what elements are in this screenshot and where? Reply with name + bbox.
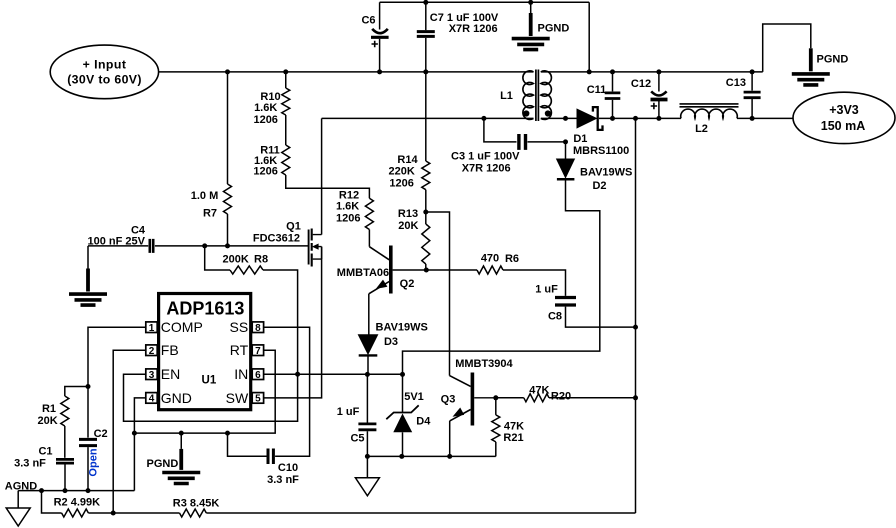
svg-text:1206: 1206 <box>253 114 277 126</box>
node C12 top <box>656 69 661 74</box>
svg-text:C13: C13 <box>726 77 746 89</box>
svg-text:R14: R14 <box>397 154 418 166</box>
ground PGND3 <box>179 449 183 470</box>
node GND rail start <box>132 431 137 436</box>
capacitor C7 <box>417 32 435 37</box>
wire C8 bottom <box>566 307 636 328</box>
wire C12 leads <box>658 72 660 119</box>
wire C4 ground lead <box>87 246 89 269</box>
svg-text:FB: FB <box>161 342 179 358</box>
svg-text:SW: SW <box>226 390 249 406</box>
svg-text:47K: 47K <box>529 385 549 397</box>
capacitor C11 <box>605 93 621 99</box>
capacitor C5 <box>358 424 376 430</box>
node C11 bottom <box>610 116 615 121</box>
wire PGND1 lead <box>530 2 532 13</box>
svg-text:GND: GND <box>161 390 192 406</box>
pin 3 EN <box>146 369 157 380</box>
svg-text:R1: R1 <box>42 403 56 415</box>
ground PGND2 <box>809 48 813 71</box>
resistor R3 <box>180 509 207 517</box>
capacitor C4 <box>150 239 153 253</box>
node +3V3 output terminal <box>793 92 895 143</box>
wire gate line 2 <box>155 245 308 247</box>
resistor R20 <box>524 394 549 402</box>
wire R8 right to IN <box>124 270 298 421</box>
resistor R13 <box>422 224 430 264</box>
svg-text:R3 8.45K: R3 8.45K <box>173 498 220 510</box>
diode D2 BAV19WS <box>557 159 575 178</box>
svg-text:BAV19WS: BAV19WS <box>580 167 632 179</box>
wire R1 top <box>65 387 88 397</box>
wire Q2 emitter to D3 <box>368 294 370 335</box>
node C5 bottom <box>365 454 370 459</box>
svg-text:AGND: AGND <box>5 480 37 492</box>
wire C5 bottom lead <box>366 431 368 456</box>
svg-text:C6: C6 <box>361 15 375 27</box>
svg-text:1.6K: 1.6K <box>336 201 359 213</box>
pin 7 RT <box>252 345 263 356</box>
wire FB line <box>113 350 146 513</box>
svg-text:RT: RT <box>230 342 249 358</box>
svg-text:PGND: PGND <box>538 23 570 35</box>
wire R7 bottom lead <box>227 214 229 246</box>
resistor R8 <box>230 266 263 274</box>
node R7 bottom <box>225 243 230 248</box>
wire R14 to R13 <box>425 190 427 224</box>
svg-text:MBRS1100: MBRS1100 <box>573 145 629 157</box>
wire R10 top lead <box>285 72 287 88</box>
svg-text:C1: C1 <box>38 446 52 458</box>
svg-text:X7R 1206: X7R 1206 <box>462 163 511 175</box>
svg-text:ADP1613: ADP1613 <box>166 298 244 318</box>
wire C13 leads <box>751 72 753 119</box>
ground C4 <box>86 269 90 292</box>
node L1 primary polarity dot <box>523 110 529 116</box>
wire C10 left <box>228 433 267 456</box>
svg-text:IN: IN <box>234 366 248 382</box>
wire feedback vertical <box>635 118 637 513</box>
svg-text:1206: 1206 <box>389 178 413 190</box>
ground PGND1 <box>529 13 533 36</box>
wire top ground rail <box>380 1 590 3</box>
node D1 anode / D2 / C3 <box>563 116 568 121</box>
node Q3 base / R21 <box>493 395 498 400</box>
node feedback tap <box>633 116 638 121</box>
svg-text:EN: EN <box>161 366 180 382</box>
resistor R10 <box>282 88 290 115</box>
resistor R21 <box>492 415 500 442</box>
wire gnd rail <box>134 350 275 433</box>
node D4 branch <box>400 372 405 377</box>
node C12 bottom <box>656 116 661 121</box>
wire output line <box>599 117 681 119</box>
node PGND1 junction <box>528 0 533 5</box>
svg-text:+3V3: +3V3 <box>829 103 859 117</box>
wire D2 top lead <box>565 142 567 159</box>
node C3 left <box>481 116 486 121</box>
svg-text:Q1: Q1 <box>286 221 301 233</box>
wire R10-R11 <box>285 115 287 145</box>
resistor R1 <box>61 396 69 426</box>
resistor R6 <box>477 266 503 274</box>
wire C3 left lead <box>484 118 517 141</box>
node D3 / C5 <box>365 372 370 377</box>
wire bottom line right <box>206 512 635 514</box>
pin 5 SW <box>252 393 263 404</box>
svg-text:X7R 1206: X7R 1206 <box>449 23 498 35</box>
node C7 bottom / R14 top <box>423 69 428 74</box>
svg-text:L1: L1 <box>500 90 513 102</box>
svg-text:220K: 220K <box>389 166 415 178</box>
wire Q3 emitter lead <box>449 421 451 457</box>
node L1 secondary polarity dot <box>545 110 551 116</box>
node C6 bottom <box>377 69 382 74</box>
transistor Q3 MMBT3904 <box>471 373 475 426</box>
svg-text:20K: 20K <box>398 220 418 232</box>
svg-text:R21: R21 <box>503 432 523 444</box>
transistor Q2 MMBTA06 <box>389 246 393 294</box>
svg-text:3: 3 <box>149 370 155 381</box>
svg-text:4: 4 <box>149 394 155 405</box>
wire C7 bottom lead to input rail and R14 <box>425 38 427 161</box>
wire gate line <box>88 245 148 247</box>
svg-text:470: 470 <box>481 253 499 265</box>
capacitor C12 (polarized) <box>651 91 666 95</box>
pin 1 COMP <box>146 322 157 333</box>
svg-text:7: 7 <box>255 346 261 357</box>
diode D3 BAV19WS <box>358 335 377 354</box>
wire PGND3 lead <box>180 433 182 449</box>
node secondary-rail / top-rail <box>587 69 592 74</box>
node C1 bottom <box>63 488 68 493</box>
svg-text:Q3: Q3 <box>441 394 456 406</box>
node C10 branch <box>225 431 230 436</box>
svg-text:1: 1 <box>149 323 155 334</box>
svg-text:6: 6 <box>255 370 261 381</box>
wire AGND line <box>18 490 134 492</box>
svg-text:R20: R20 <box>551 390 571 402</box>
pin 8 SS <box>252 322 263 333</box>
svg-text:PGND: PGND <box>147 458 179 470</box>
wire R11 to R12 <box>286 175 370 198</box>
svg-text:3.3 nF: 3.3 nF <box>14 458 46 470</box>
svg-text:U1: U1 <box>202 375 217 387</box>
svg-text:C11: C11 <box>587 84 607 96</box>
wire GND line <box>134 398 145 491</box>
node bottom-line tap <box>39 488 44 493</box>
svg-text:D2: D2 <box>592 180 606 192</box>
svg-text:R13: R13 <box>398 208 418 220</box>
capacitor C3 <box>519 134 526 150</box>
node R8 branch <box>202 243 207 248</box>
svg-text:D4: D4 <box>416 415 431 427</box>
wire C5 top lead <box>366 374 368 422</box>
ground AGND <box>6 508 30 526</box>
capacitor C2 <box>79 439 97 445</box>
wire secondary bottom <box>541 117 577 119</box>
svg-text:(30V to 60V): (30V to 60V) <box>67 73 142 87</box>
wire R1 to C1 <box>64 426 66 458</box>
diode D4 zener 5V1 <box>386 405 418 419</box>
svg-text:SS: SS <box>230 319 249 335</box>
resistor R14 <box>422 161 430 190</box>
resistor R2 <box>62 509 89 517</box>
wire C2 bottom <box>87 447 89 491</box>
resistor R11 <box>282 145 290 175</box>
wire R12 to Q2 collector <box>368 230 370 247</box>
wire AGND triangle lead <box>17 491 19 508</box>
wire D2 to clamp loop <box>403 179 600 374</box>
wire R6 left <box>426 269 477 271</box>
svg-text:R8: R8 <box>254 253 268 265</box>
svg-text:C12: C12 <box>631 78 651 90</box>
wire top rail right drop <box>588 2 590 72</box>
wire Q1 drain <box>321 118 323 234</box>
wire D4 bottom lead <box>402 432 404 456</box>
svg-text:Q2: Q2 <box>400 278 415 290</box>
svg-text:8: 8 <box>255 323 261 334</box>
svg-text:150 mA: 150 mA <box>821 119 865 133</box>
diode D1 MBRS1100 <box>577 109 596 128</box>
node C7 top junction <box>423 0 428 5</box>
capacitor C8 <box>555 298 576 306</box>
node FB divider <box>111 511 116 516</box>
svg-text:3.3 nF: 3.3 nF <box>267 474 299 486</box>
svg-text:C3 1 uF 100V: C3 1 uF 100V <box>451 151 520 163</box>
resistor R7 <box>224 184 232 214</box>
wire to Q3 collector <box>426 212 450 376</box>
svg-text:C5: C5 <box>350 433 364 445</box>
svg-text:47K: 47K <box>504 421 524 433</box>
wire R8 left lead <box>205 246 230 270</box>
svg-text:200K: 200K <box>223 253 249 265</box>
wire input rail <box>159 71 534 73</box>
node R20 / feedback <box>633 395 638 400</box>
svg-text:PGND: PGND <box>817 54 849 66</box>
wire secondary ground rail <box>541 71 763 73</box>
svg-text:L2: L2 <box>695 123 708 135</box>
node Q3 emitter <box>447 454 452 459</box>
svg-text:MMBT3904: MMBT3904 <box>455 358 513 370</box>
svg-text:BAV19WS: BAV19WS <box>376 321 428 333</box>
wire output line after L2 <box>737 117 793 119</box>
wire R21 bottom lead <box>495 442 497 457</box>
svg-text:R7: R7 <box>203 208 217 220</box>
pin 6 IN <box>252 369 263 380</box>
wire C11 leads <box>612 72 614 119</box>
node R1 branch <box>86 384 91 389</box>
wire C10 right to SS <box>264 327 310 456</box>
wire R20 right <box>549 397 636 399</box>
pin 4 GND <box>146 393 157 404</box>
wire COMP to C2 <box>88 327 146 437</box>
wire C7 top lead <box>425 2 427 30</box>
wire R21 top lead <box>495 398 497 415</box>
wire R20 left <box>496 397 524 399</box>
node D4 bottom <box>399 454 404 459</box>
svg-text:1 uF: 1 uF <box>535 284 558 296</box>
node C3 right <box>563 139 568 144</box>
wire bottom line left <box>42 491 62 513</box>
svg-text:C8: C8 <box>548 311 562 323</box>
node C11 top <box>610 69 615 74</box>
resistor R12 <box>365 198 373 229</box>
svg-text:Open: Open <box>88 448 100 476</box>
wire D3 bottom lead <box>367 355 369 374</box>
node R10 top <box>283 69 288 74</box>
op-amp U1 ADP1613 (IC body) <box>159 294 251 410</box>
wire C5/D4/Q3e ground line <box>367 455 495 457</box>
svg-text:5: 5 <box>255 394 261 405</box>
inductor L2 <box>681 109 738 118</box>
svg-text:20K: 20K <box>38 415 58 427</box>
wire Q1 source to SW <box>264 247 322 398</box>
svg-text:1.6K: 1.6K <box>254 102 277 114</box>
svg-text:MMBTA06: MMBTA06 <box>337 267 389 279</box>
node R14-R13 / Q3 collector <box>423 210 428 215</box>
svg-text:1206: 1206 <box>336 213 360 225</box>
node C13 bottom <box>750 116 755 121</box>
svg-text:R6: R6 <box>505 253 519 265</box>
transformer L1 core <box>536 70 539 122</box>
svg-text:C2: C2 <box>94 428 108 440</box>
wire primary bottom rail <box>322 117 534 119</box>
wire D4 top lead <box>402 374 404 412</box>
svg-text:COMP: COMP <box>161 319 203 335</box>
wire C6 top lead <box>379 2 381 29</box>
node Q2 base / R6 <box>424 268 429 273</box>
capacitor C1 <box>56 459 74 463</box>
node IN / R8 / EN <box>295 372 300 377</box>
transformer L1 secondary winding <box>541 71 552 120</box>
capacitor C6 (polarized) <box>372 29 388 33</box>
svg-text:FDC3612: FDC3612 <box>253 233 300 245</box>
wire gnd triangle lead <box>366 456 368 477</box>
wire R7 top lead <box>227 72 229 184</box>
svg-text:1 uF: 1 uF <box>337 406 360 418</box>
svg-text:+ Input: + Input <box>83 58 127 72</box>
wire C1 bottom <box>64 465 66 491</box>
svg-text:100 nF 25V: 100 nF 25V <box>87 236 145 248</box>
svg-text:D3: D3 <box>384 336 398 348</box>
svg-text:1206: 1206 <box>253 166 277 178</box>
capacitor C13 <box>744 92 761 98</box>
wire R13 bottom lead <box>425 264 427 270</box>
svg-text:D1: D1 <box>573 133 587 145</box>
node C8 / feedback <box>633 325 638 330</box>
svg-text:1.0 M: 1.0 M <box>191 190 219 202</box>
svg-text:C10: C10 <box>278 462 298 474</box>
wire C3 right lead <box>528 141 566 143</box>
svg-text:R2 4.99K: R2 4.99K <box>54 497 101 509</box>
node R7 top <box>225 69 230 74</box>
ground (triangle) C5 <box>355 478 379 496</box>
node + Input terminal <box>50 45 158 99</box>
wire IN line <box>264 373 403 375</box>
wire bottom line mid <box>88 512 179 514</box>
transistor Q1 FDC3612 (MOSFET) <box>308 230 310 265</box>
pin 2 FB <box>146 345 157 356</box>
wire R6 right to C8 <box>503 270 566 296</box>
node C2 bottom <box>86 488 91 493</box>
wire C6 bottom lead <box>379 39 381 72</box>
wire to PGND2 <box>763 24 811 72</box>
node C13 top <box>750 69 755 74</box>
svg-text:2: 2 <box>149 346 155 357</box>
transformer L1 primary winding <box>523 71 534 120</box>
capacitor C10 <box>268 449 273 465</box>
node PGND3 <box>179 431 184 436</box>
svg-text:5V1: 5V1 <box>404 391 424 403</box>
